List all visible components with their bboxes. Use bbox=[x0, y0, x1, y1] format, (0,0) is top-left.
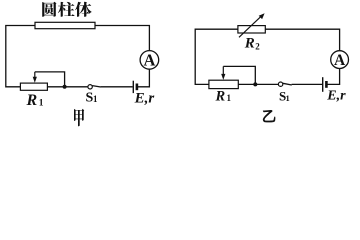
resistor R2 box (right top) bbox=[238, 26, 265, 33]
rheostat R1 box (left) bbox=[20, 83, 47, 90]
wire: ammeter to battery corner bbox=[138, 69, 150, 87]
label 甲 (figure a) bbox=[74, 109, 84, 127]
wire: ammeter to battery corner (right) bbox=[327, 69, 339, 85]
wire: battery to switch (right) bbox=[292, 83, 322, 85]
rheostat R1 box (right) bbox=[209, 80, 238, 88]
wire: slider to junction (left) bbox=[35, 72, 65, 85]
svg-text:2: 2 bbox=[255, 42, 260, 52]
battery E,r (left): short thick plate bbox=[136, 84, 139, 91]
svg-text:A: A bbox=[334, 52, 346, 69]
label 圆柱体 (cylinder) bbox=[42, 2, 91, 17]
wire: junction to switch bbox=[48, 86, 88, 88]
junction dot (right) bbox=[253, 82, 257, 86]
svg-text:R: R bbox=[26, 92, 38, 109]
svg-text:R: R bbox=[244, 36, 255, 52]
svg-text:R: R bbox=[215, 89, 226, 105]
junction dot (left) bbox=[63, 85, 67, 89]
svg-text:1: 1 bbox=[39, 99, 44, 109]
ammeter A (left circuit) bbox=[140, 51, 159, 70]
svg-text:E,r: E,r bbox=[326, 89, 346, 104]
rheostat R1 slider arrow (right) bbox=[222, 66, 224, 75]
switch S1 blade (left) bbox=[92, 86, 101, 87]
switch S1 blade (right) bbox=[283, 83, 292, 85]
wire: top rail right segment down to ammeter bbox=[95, 26, 149, 51]
switch S1 pivot circle (right) bbox=[278, 82, 282, 86]
wire: top rail left segment + left rail + bottom-left segment bbox=[6, 26, 35, 87]
wire: slider to junction (right) bbox=[223, 66, 255, 82]
wire: top rail right segment down to ammeter (right) bbox=[265, 29, 339, 51]
wire: junction to switch (right) bbox=[238, 83, 278, 85]
battery E,r (left): long thin plate bbox=[132, 81, 134, 93]
svg-text:A: A bbox=[143, 50, 155, 69]
battery E,r (right): long thin plate bbox=[322, 77, 324, 92]
wire: battery to switch bbox=[101, 86, 133, 88]
switch S1 pivot circle (left) bbox=[88, 85, 92, 89]
wire: top rail left segment + left rail + bottom-left segment bbox=[195, 29, 238, 84]
rheostat R1 slider arrow (left) bbox=[34, 72, 36, 79]
cylinder (test object) box bbox=[35, 22, 95, 28]
label 乙 (figure b) bbox=[263, 110, 275, 122]
svg-text:1: 1 bbox=[93, 94, 98, 104]
battery E,r (right): short thick plate bbox=[325, 81, 328, 88]
resistor R2 diagonal arrow bbox=[239, 16, 262, 37]
svg-text:1: 1 bbox=[227, 93, 232, 103]
svg-text:E,r: E,r bbox=[134, 90, 155, 106]
ammeter A (right circuit) bbox=[331, 51, 349, 69]
svg-text:1: 1 bbox=[286, 93, 290, 103]
